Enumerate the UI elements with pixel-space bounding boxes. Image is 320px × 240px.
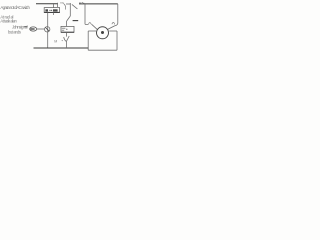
relay box K1 inner dots xyxy=(49,10,50,11)
vertical feed into box B2 xyxy=(66,21,68,27)
brush squiggle left xyxy=(89,23,92,25)
motor M1 circle xyxy=(97,27,109,39)
relay box K1 (fuse block) outline xyxy=(44,8,59,13)
brush squiggle right xyxy=(112,22,115,24)
wire from fuse F1 to node J1 xyxy=(37,28,45,30)
relay box K1 inner segment right xyxy=(53,9,58,11)
svg-text:but ands: but ands xyxy=(8,29,21,34)
svg-text:M: M xyxy=(54,40,57,44)
motor housing box top-left edge xyxy=(88,30,96,32)
junction circle with cross (node J1) xyxy=(45,27,50,32)
motor housing box bottom edge xyxy=(88,49,117,51)
coil box B2 dark bottom edge xyxy=(61,31,74,33)
diagonal lead into motor (right) xyxy=(108,26,115,30)
motor housing box top-right edge xyxy=(109,30,117,32)
vertical wire right motor lead (x118) xyxy=(115,4,118,26)
coil box B2 outline xyxy=(61,26,74,32)
svg-text:At task alan: At task alan xyxy=(0,19,17,24)
switch S3 right prong xyxy=(66,36,69,41)
switch S3 lower stem to rail xyxy=(65,41,67,48)
switch S1 dots xyxy=(60,2,61,3)
vertical wire at x70 xyxy=(69,3,71,16)
terminal stub below box K1 xyxy=(53,13,55,15)
switch S2 blade (open, top rail) xyxy=(72,4,78,8)
relay box K1 dark bottom edge xyxy=(44,11,59,13)
relay box K1 inner segment left xyxy=(45,9,48,11)
fuse F1 inner dash xyxy=(30,28,34,30)
motor housing box left edge xyxy=(87,31,89,50)
switch S3 side dot xyxy=(62,40,63,41)
switch S3 left prong xyxy=(64,37,66,41)
wire top rail right segment xyxy=(79,3,118,5)
motor M1 center dot xyxy=(101,31,104,34)
switch S3 upper stem from box B2 xyxy=(66,32,68,36)
jog diagonal to coil feed xyxy=(67,16,71,21)
switch S2 contact dots on rail xyxy=(79,2,80,3)
svg-text:Agarra not of AC switch: Agarra not of AC switch xyxy=(0,5,30,10)
motor housing box right edge xyxy=(116,31,118,50)
coil box B2 inner marks xyxy=(62,27,66,29)
bottom ground rail xyxy=(34,47,89,49)
wire top rail middle segment xyxy=(66,3,71,5)
switch S1 tick terminal xyxy=(57,3,59,7)
dash after caption line A xyxy=(24,26,27,28)
wire top rail left segment xyxy=(36,3,58,5)
switch S1 arc contact xyxy=(63,3,65,9)
vertical wire left motor lead (x85) xyxy=(85,4,88,25)
fuse F1 oval xyxy=(30,27,37,31)
mechanical link dash xyxy=(73,20,79,22)
wire tick from top rail down to relay box R1 xyxy=(53,4,55,8)
diagonal lead into motor (left) xyxy=(92,24,98,29)
long vertical wire from box K1 to bottom rail xyxy=(47,13,49,49)
